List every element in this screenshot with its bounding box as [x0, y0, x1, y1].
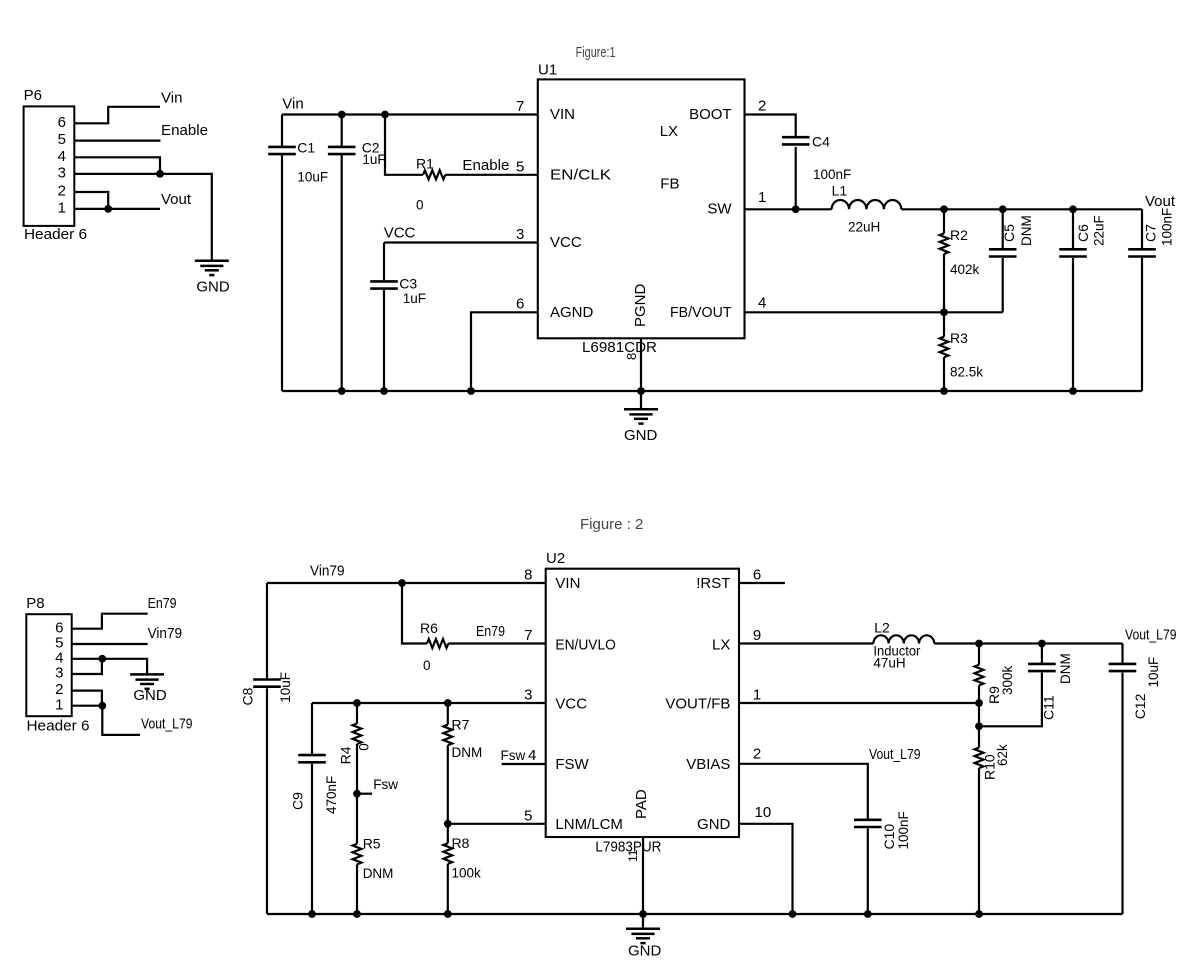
- wire C10 bottom: [867, 829, 869, 915]
- wire Fsw tick: [357, 793, 372, 795]
- svg-text:SW: SW: [707, 200, 732, 217]
- svg-text:100nF: 100nF: [1160, 208, 1175, 246]
- connector P8: [26, 614, 71, 716]
- svg-text:7: 7: [524, 627, 532, 644]
- wire Vin79 rail: [267, 582, 546, 584]
- svg-text:5: 5: [516, 158, 524, 175]
- wire C9 bottom: [311, 764, 313, 914]
- svg-text:C6: C6: [1075, 224, 1091, 242]
- junction rail2 x=357: [353, 910, 361, 918]
- svg-text:100nF: 100nF: [813, 167, 851, 182]
- wire VOUT/FB: [739, 702, 979, 704]
- junction Vin/C2: [338, 111, 346, 119]
- svg-text:VIN: VIN: [555, 575, 580, 592]
- wire R7 top: [447, 703, 449, 725]
- svg-text:EN/CLK: EN/CLK: [550, 166, 611, 183]
- junction SW/C5: [999, 205, 1007, 213]
- junction Vin/R1: [381, 111, 389, 119]
- svg-text:402k: 402k: [950, 262, 980, 277]
- wire to ground 2: [642, 914, 644, 929]
- svg-text:5: 5: [524, 808, 532, 825]
- svg-text:Vin: Vin: [282, 95, 303, 112]
- wire R1 right: [445, 174, 538, 176]
- svg-text:P8: P8: [26, 595, 44, 612]
- svg-text:VIN: VIN: [550, 106, 575, 123]
- svg-text:GND: GND: [697, 816, 731, 833]
- svg-text:R6: R6: [420, 620, 438, 636]
- junction SW/C6: [1069, 205, 1077, 213]
- junction rail2 x=447.8: [444, 910, 452, 918]
- wire to ground: [640, 391, 642, 409]
- inductor L1: [832, 200, 902, 209]
- svg-text:6: 6: [58, 114, 66, 131]
- R1 body: [423, 170, 445, 179]
- svg-text:4: 4: [528, 747, 536, 764]
- svg-text:Vout: Vout: [161, 191, 192, 208]
- svg-text:0: 0: [423, 658, 431, 673]
- svg-text:L1: L1: [832, 183, 848, 199]
- junction LX/R9: [975, 640, 983, 648]
- svg-text:EN/UVLO: EN/UVLO: [555, 636, 616, 653]
- junction rail x=944: [940, 387, 948, 395]
- svg-text:!RST: !RST: [696, 575, 730, 592]
- wire P8.2: [72, 691, 102, 706]
- svg-text:1uF: 1uF: [362, 152, 385, 167]
- wire R5 top: [356, 794, 358, 844]
- wire BOOT: [745, 115, 796, 137]
- svg-text:Fsw: Fsw: [373, 777, 398, 792]
- svg-text:C3: C3: [399, 276, 417, 292]
- svg-text:2: 2: [758, 98, 766, 115]
- wire P6.4: [74, 157, 160, 174]
- svg-text:VBIAS: VBIAS: [686, 756, 730, 773]
- junction R4/R5/Fsw: [353, 790, 361, 798]
- wire C1 bottom: [281, 155, 283, 391]
- svg-text:En79: En79: [148, 595, 177, 612]
- wire FB/VOUT: [745, 311, 1003, 313]
- wire R4 bottom: [356, 744, 358, 794]
- wire R9 bottom: [978, 685, 980, 703]
- svg-text:Vin: Vin: [161, 90, 182, 107]
- wire SW to Vout: [901, 208, 1142, 210]
- svg-text:FSW: FSW: [555, 756, 589, 773]
- wire R3 bottom: [943, 357, 945, 391]
- wire R2 bottom: [943, 254, 945, 312]
- svg-text:10uF: 10uF: [278, 672, 293, 703]
- wire P8.3: [72, 659, 102, 674]
- svg-text:DNM: DNM: [1058, 653, 1073, 684]
- junction FB/R2/R3: [940, 308, 948, 316]
- svg-text:BOOT: BOOT: [689, 106, 732, 123]
- svg-text:4: 4: [758, 295, 766, 312]
- wire C4 bottom: [795, 147, 797, 209]
- svg-text:100k: 100k: [452, 866, 482, 881]
- wire Vin rail: [282, 113, 538, 115]
- wire C9 top: [311, 703, 313, 754]
- wire C6 bottom: [1072, 258, 1074, 391]
- svg-text:P6: P6: [24, 87, 42, 104]
- R9 body: [975, 665, 984, 686]
- svg-text:LX: LX: [660, 123, 678, 140]
- wire fig1 bottom rail: [282, 390, 1142, 392]
- wire R5 bottom: [356, 864, 358, 914]
- junction rail2 x=643: [639, 910, 647, 918]
- svg-text:3: 3: [516, 226, 524, 243]
- ground (P6): [195, 259, 229, 262]
- svg-text:Vout: Vout: [1145, 193, 1176, 210]
- svg-text:1uF: 1uF: [403, 291, 426, 306]
- wire P8.4 to GND: [72, 659, 147, 673]
- svg-text:DNM: DNM: [452, 745, 483, 760]
- wire LNM/LCM: [448, 823, 546, 825]
- svg-text:4: 4: [58, 148, 66, 165]
- svg-text:3: 3: [524, 687, 532, 704]
- ground (P8): [130, 673, 164, 676]
- wire VBIAS: [739, 764, 868, 819]
- svg-text:Vout_L79: Vout_L79: [869, 746, 921, 763]
- svg-text:C12: C12: [1132, 693, 1148, 719]
- wire R3 top: [943, 312, 945, 336]
- junction R7/R8/pin5: [444, 820, 452, 828]
- svg-text:Header 6: Header 6: [27, 717, 90, 734]
- wire P8.5 to Vin79: [72, 643, 148, 645]
- svg-text:R8: R8: [452, 835, 470, 851]
- svg-text:Enable: Enable: [462, 157, 509, 174]
- svg-text:10uF: 10uF: [297, 170, 328, 185]
- junction P8 pins 3-4: [98, 655, 106, 663]
- inductor L2: [873, 635, 934, 643]
- R4 body: [353, 724, 362, 745]
- wire C6 top: [1072, 209, 1074, 248]
- svg-text:Header 6: Header 6: [24, 226, 87, 243]
- wire P8.1 to Vout_L79: [72, 706, 140, 735]
- junction P6 pins 3-4: [156, 170, 164, 178]
- junction Vin79/R6: [398, 579, 406, 587]
- svg-text:C8: C8: [240, 687, 256, 705]
- svg-text:7: 7: [516, 98, 524, 115]
- svg-text:PGND: PGND: [632, 283, 649, 327]
- svg-text:Enable: Enable: [161, 122, 208, 139]
- R3 body: [940, 337, 949, 358]
- svg-text:3: 3: [55, 665, 63, 682]
- svg-text:R4: R4: [337, 746, 353, 764]
- svg-text:3: 3: [58, 165, 66, 182]
- svg-text:82.5k: 82.5k: [950, 365, 983, 380]
- wire C12 bottom: [1121, 673, 1123, 914]
- wire R10 top: [978, 726, 980, 747]
- svg-text:GND: GND: [628, 943, 662, 960]
- svg-text:VCC: VCC: [384, 225, 416, 242]
- junction P8 pins 1-2: [98, 702, 106, 710]
- wire C12 top: [1121, 644, 1123, 663]
- svg-text:Vout_L79: Vout_L79: [1125, 627, 1177, 644]
- svg-text:Figure : 2: Figure : 2: [580, 516, 643, 533]
- wire C5 bottom: [1002, 258, 1004, 312]
- junction rail x=641: [637, 387, 645, 395]
- wire C3 top: [383, 243, 385, 281]
- svg-text:2: 2: [58, 183, 66, 200]
- junction SW/R2: [940, 205, 948, 213]
- svg-text:9: 9: [753, 627, 761, 644]
- junction rail2 x=979: [975, 910, 983, 918]
- svg-text:6: 6: [516, 295, 524, 312]
- R6 body: [427, 639, 448, 648]
- svg-text:47uH: 47uH: [873, 656, 905, 671]
- wire P6.2: [74, 192, 108, 209]
- svg-text:2: 2: [753, 746, 761, 763]
- wire LX: [739, 642, 873, 644]
- svg-text:C5: C5: [1001, 224, 1017, 242]
- wire C1 top: [281, 115, 283, 146]
- svg-text:VCC: VCC: [555, 696, 587, 713]
- svg-text:0: 0: [416, 197, 424, 212]
- svg-text:22uF: 22uF: [1092, 215, 1107, 246]
- svg-text:100nF: 100nF: [896, 811, 911, 849]
- svg-text:8: 8: [524, 566, 532, 583]
- junction rail2 x=867.8: [864, 910, 872, 918]
- svg-text:R2: R2: [950, 227, 968, 243]
- svg-text:11: 11: [626, 849, 640, 862]
- svg-text:10: 10: [755, 804, 772, 821]
- svg-text:DNM: DNM: [363, 866, 394, 881]
- svg-text:6: 6: [753, 566, 761, 583]
- svg-text:LX: LX: [712, 636, 730, 653]
- junction rail x=341.7: [338, 387, 346, 395]
- wire C2 top: [341, 115, 343, 146]
- wire R2 top: [943, 209, 945, 233]
- wire R6 left: [402, 583, 427, 644]
- wire C2 bottom: [341, 155, 343, 391]
- junction VOUT-FB/R9: [975, 699, 983, 707]
- svg-text:C11: C11: [1040, 695, 1056, 720]
- wire C7 top: [1141, 209, 1143, 248]
- svg-text:C4: C4: [812, 134, 830, 150]
- wire VCC fig2: [312, 702, 546, 704]
- junction rail2 x=312: [308, 910, 316, 918]
- R2 body: [940, 233, 949, 254]
- junction R9/R10/C11: [975, 722, 983, 730]
- svg-text:470nF: 470nF: [324, 776, 339, 814]
- wire GND pin10: [739, 824, 793, 914]
- svg-text:VCC: VCC: [550, 234, 582, 251]
- wire C11 top: [1041, 644, 1043, 663]
- svg-text:C1: C1: [297, 140, 315, 156]
- svg-text:Vin79: Vin79: [148, 625, 183, 642]
- wire C8 bottom: [266, 688, 268, 914]
- wire C3 bottom: [383, 290, 385, 391]
- svg-text:1: 1: [55, 696, 63, 713]
- wire PAD stub: [642, 837, 644, 914]
- junction VCC/R7: [444, 699, 452, 707]
- op-amp U2 L7983PUR: [546, 569, 739, 837]
- wire C7 bottom: [1141, 258, 1143, 391]
- R5 body: [353, 844, 362, 865]
- svg-text:10uF: 10uF: [1146, 657, 1161, 688]
- wire R9-R10 link: [978, 703, 980, 726]
- junction LX/C11: [1038, 640, 1046, 648]
- svg-text:GND: GND: [196, 278, 230, 295]
- svg-text:LNM/LCM: LNM/LCM: [555, 816, 623, 833]
- junction VCC/R4: [353, 699, 361, 707]
- R10 body: [975, 748, 984, 769]
- svg-text:R3: R3: [950, 330, 968, 346]
- svg-text:C10: C10: [881, 824, 897, 850]
- R8 body: [443, 843, 452, 864]
- wire P6.3 to GND: [74, 174, 212, 261]
- junction P6 pins 1-2: [104, 205, 112, 213]
- svg-text:Vin79: Vin79: [310, 563, 345, 580]
- connector P6: [24, 106, 75, 225]
- wire AGND: [471, 312, 538, 391]
- junction SW/C4: [792, 205, 800, 213]
- svg-text:R5: R5: [363, 835, 381, 851]
- svg-text:En79: En79: [476, 623, 505, 640]
- wire fig2 bottom rail: [267, 913, 1123, 915]
- wire FSW stub: [502, 763, 546, 765]
- junction rail x=471: [467, 387, 475, 395]
- wire VCC: [384, 241, 538, 243]
- svg-text:62k: 62k: [995, 744, 1010, 766]
- svg-text:U2: U2: [546, 550, 565, 567]
- R7 body: [443, 725, 452, 746]
- svg-text:FB: FB: [660, 176, 679, 193]
- wire R8 top: [447, 824, 449, 844]
- svg-text:R7: R7: [452, 717, 470, 733]
- svg-text:C9: C9: [289, 792, 305, 810]
- svg-text:8: 8: [624, 353, 639, 360]
- wire R6 right: [448, 642, 545, 644]
- wire SW: [745, 208, 832, 210]
- svg-text:PAD: PAD: [633, 789, 650, 819]
- op-amp U1 L6981CDR: [538, 79, 745, 338]
- svg-text:L6981CDR: L6981CDR: [582, 339, 657, 356]
- svg-text:AGND: AGND: [550, 304, 594, 321]
- junction rail2 x=792.5: [789, 910, 797, 918]
- svg-text:GND: GND: [624, 427, 658, 444]
- svg-text:Vout_L79: Vout_L79: [141, 715, 193, 732]
- svg-text:Fsw: Fsw: [501, 748, 526, 763]
- wire R4 top: [356, 703, 358, 724]
- wire C8 top: [266, 583, 268, 678]
- wire C5 top: [1002, 209, 1004, 248]
- wire P6.5 to Enable: [74, 140, 160, 142]
- wire R9 top: [978, 644, 980, 665]
- svg-text:300k: 300k: [1000, 665, 1015, 695]
- wire !RST stub: [739, 582, 785, 584]
- wire R10 bottom: [978, 768, 980, 914]
- svg-text:U1: U1: [538, 62, 557, 79]
- wire C11 bottom: [979, 673, 1042, 727]
- wire PGND stub: [640, 338, 642, 391]
- wire P6.1 to Vout: [74, 208, 160, 210]
- svg-text:1: 1: [58, 200, 66, 217]
- wire P6.6 to Vin: [74, 107, 160, 124]
- svg-text:GND: GND: [133, 687, 167, 704]
- svg-text:DNM: DNM: [1019, 215, 1034, 246]
- wire LX to Vout_L79: [934, 642, 1122, 644]
- svg-text:VOUT/FB: VOUT/FB: [665, 696, 730, 713]
- svg-text:1: 1: [753, 687, 761, 704]
- wire R7 bottom: [447, 745, 449, 824]
- wire R8 bottom: [447, 864, 449, 914]
- svg-text:C7: C7: [1143, 224, 1159, 242]
- svg-text:R1: R1: [416, 156, 434, 172]
- svg-text:L2: L2: [874, 620, 890, 636]
- svg-text:FB/VOUT: FB/VOUT: [670, 304, 732, 321]
- svg-text:1: 1: [758, 189, 766, 206]
- svg-text:Figure:1: Figure:1: [576, 44, 616, 61]
- svg-text:22uH: 22uH: [848, 219, 880, 234]
- svg-text:5: 5: [58, 131, 66, 148]
- junction rail x=384: [380, 387, 388, 395]
- svg-text:0: 0: [356, 743, 371, 751]
- wire P8.6 to En79: [72, 614, 148, 629]
- junction rail x=1073: [1069, 387, 1077, 395]
- wire R1 left: [385, 115, 423, 175]
